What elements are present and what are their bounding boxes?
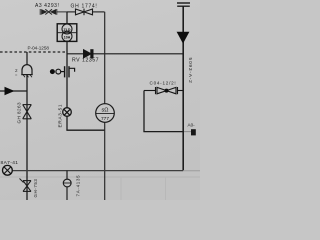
svg-text:777: 777 <box>101 116 109 122</box>
diode V7 (hourglass bottom on x=27) <box>20 179 32 192</box>
svg-text:ERA3-51: ERA3-51 <box>58 104 64 128</box>
lead <box>61 71 64 73</box>
arrow input wire y=91 <box>0 90 27 92</box>
svg-text:7A-4135: 7A-4135 <box>76 175 81 197</box>
svg-text:GH-753: GH-753 <box>33 179 38 198</box>
capacitor / connector assembly at y=71.5 <box>50 66 75 77</box>
wire y=131.5 <box>143 131 184 133</box>
lamp E2 bottom left <box>3 165 13 175</box>
diode V3 RV (filled) <box>84 50 94 58</box>
svg-text:sΩ: sΩ <box>102 108 109 114</box>
faint grid line horizontal y=177 <box>0 176 200 178</box>
hook lead <box>69 68 74 72</box>
wire x=183 <box>182 6 184 170</box>
wire x=144 branch <box>143 91 145 132</box>
connector K1 below y=170.5 on x=67 <box>63 171 71 200</box>
svg-text:GH 8263: GH 8263 <box>17 102 22 124</box>
terminal 30 double bar top right <box>177 3 190 6</box>
svg-text:5093-A-2: 5093-A-2 <box>187 58 193 84</box>
node dot <box>50 69 55 74</box>
svg-text:P-04-1258: P-04-1258 <box>28 46 50 51</box>
diode pair V1 (back-to-back) <box>40 9 67 15</box>
long wire x=105 <box>104 12 106 200</box>
svg-text:A0-: A0- <box>188 123 196 128</box>
svg-text:8A7-41: 8A7-41 <box>1 160 19 166</box>
wire y=130 from x=67 to x=105 <box>66 129 105 131</box>
arrow head <box>5 87 15 95</box>
fuse F1 box <box>57 24 77 42</box>
ring terminal <box>56 69 61 74</box>
wire x=27 below horn <box>26 75 28 200</box>
faint grid line vertical x=121 <box>120 177 122 200</box>
connector block right edge <box>191 129 196 135</box>
horn H1 (bell) <box>21 52 32 77</box>
diode V5 (filled, pointing down) <box>177 32 190 44</box>
svg-text:A3 4293!: A3 4293! <box>35 3 59 9</box>
wire from diodes down to fuse box <box>66 12 68 24</box>
capacitor plates <box>64 66 66 77</box>
svg-text:ZLD: ZLD <box>64 28 71 32</box>
svg-text:C04-12/2!: C04-12/2! <box>150 81 177 86</box>
svg-text:10A: 10A <box>64 35 71 39</box>
dashed wire y=52 <box>0 51 65 53</box>
svg-text:RV 12357: RV 12357 <box>72 58 99 64</box>
wire from fuse box down <box>66 41 68 130</box>
motor M1 circle (SΩ 777) <box>96 104 115 123</box>
diode V2 (bowtie) <box>67 9 105 16</box>
diode V6 (bowtie with bars) <box>144 87 183 94</box>
diode V4 (hourglass on x=27) <box>23 105 32 119</box>
faint grid line vertical x=165 <box>165 177 167 200</box>
long wire y=170.5 <box>12 170 183 172</box>
lamp E1 on x=67 <box>63 108 72 117</box>
bus wire y=54 <box>67 53 183 55</box>
